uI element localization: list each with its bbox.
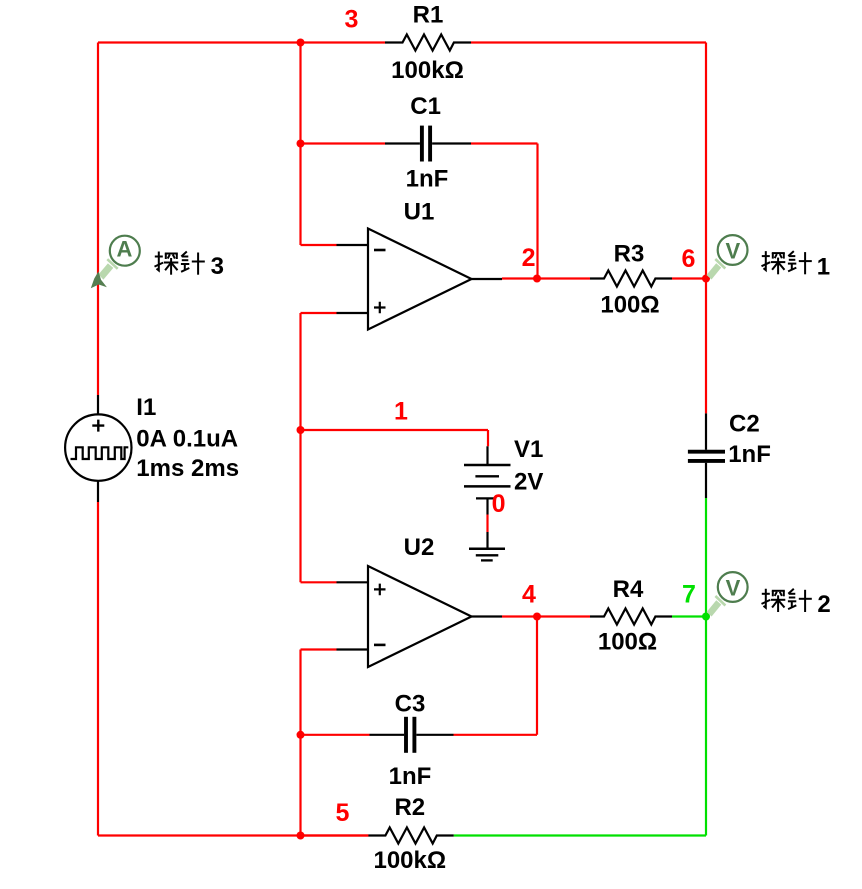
wire U2 non-inverting input [301, 581, 337, 583]
svg-text:2: 2 [522, 244, 536, 272]
resistor R3 [590, 271, 672, 287]
wire bottom green to right bus [454, 834, 706, 836]
wire net 1 horizontal to V1 [301, 429, 489, 431]
svg-text:1: 1 [394, 398, 408, 426]
op-amp U1 [368, 229, 472, 330]
svg-text:R1: R1 [413, 2, 444, 29]
wire U1 inverting input [301, 244, 337, 246]
current source I1 [65, 414, 131, 480]
svg-text:2: 2 [817, 591, 830, 618]
wire node2 to R3 [537, 277, 590, 279]
wire C3 left [301, 734, 370, 736]
wire left bus upper [97, 43, 99, 396]
svg-text:A: A [116, 237, 132, 262]
svg-text:C2: C2 [729, 411, 760, 438]
node junction dot [297, 731, 305, 739]
svg-text:4: 4 [522, 581, 536, 609]
svg-text:C3: C3 [395, 691, 426, 718]
wire U1 non-inverting input [301, 312, 337, 314]
svg-text:3: 3 [211, 253, 224, 280]
wire mid bus middle segment (net 1) [299, 313, 301, 582]
wire U1 output (net 2) [472, 278, 503, 280]
svg-text:0: 0 [492, 490, 506, 518]
svg-text:U1: U1 [404, 199, 435, 226]
wire C1 down to node 2 [536, 144, 538, 279]
op-amp U2 [368, 566, 472, 667]
svg-text:0A 0.1uA: 0A 0.1uA [136, 426, 238, 453]
wire left bus lower [97, 502, 99, 836]
svg-text:7: 7 [682, 581, 696, 609]
wire right bus green (net 7) [705, 498, 707, 836]
probe V (voltage) 探针1 [707, 235, 748, 279]
battery V1 [464, 464, 511, 467]
svg-text:1ms 2ms: 1ms 2ms [136, 455, 239, 482]
svg-text:6: 6 [682, 245, 696, 273]
node 5 junction dot [297, 832, 305, 840]
svg-text:1nF: 1nF [389, 763, 432, 790]
wire node4 to R4 [537, 615, 590, 617]
wire bottom R2 left red [301, 834, 369, 836]
svg-text:I1: I1 [136, 394, 156, 421]
svg-text:100kΩ: 100kΩ [391, 57, 464, 84]
svg-text:5: 5 [336, 799, 350, 827]
svg-text:100Ω: 100Ω [598, 629, 657, 656]
svg-text:R2: R2 [394, 794, 425, 821]
svg-text:R3: R3 [614, 241, 645, 268]
wire C2 top lead [705, 413, 707, 449]
svg-text:1: 1 [817, 253, 830, 280]
node junction dot [297, 140, 305, 148]
probe label 探针1 [762, 251, 831, 280]
svg-text:1nF: 1nF [406, 166, 449, 193]
wire C2 bottom lead [705, 463, 707, 498]
wire R4 to node 7 green [672, 615, 706, 617]
svg-text:100kΩ: 100kΩ [373, 847, 446, 874]
wire right bus red [705, 43, 707, 414]
svg-text:C1: C1 [410, 93, 441, 120]
wire I1 top stub [97, 395, 99, 415]
svg-text:3: 3 [345, 6, 359, 34]
node 1 junction dot [297, 426, 305, 434]
wire C1 left [301, 142, 386, 144]
node 4 junction dot [533, 613, 541, 621]
wire V1 bottom lead (net 0) [486, 498, 488, 514]
wire U2 inverting input [301, 648, 337, 650]
resistor R2 [368, 828, 453, 844]
wire U2 output (net 4) [472, 615, 503, 617]
wire R3 to node 6 [672, 277, 706, 279]
probe label 探针3 [155, 252, 224, 281]
wire top mid to R1 [301, 41, 386, 43]
node junction dot [297, 39, 305, 47]
node 6 junction dot [702, 275, 710, 283]
wire I1 bottom stub [97, 481, 99, 503]
capacitor C3 [404, 717, 408, 753]
wire R1 right to right bus [471, 41, 706, 43]
wire node4 down to C3 [536, 617, 538, 735]
svg-text:V1: V1 [514, 436, 543, 463]
capacitor C2 [688, 450, 725, 454]
svg-text:R4: R4 [613, 576, 644, 603]
wire C1 right [432, 142, 471, 144]
wire V1 top lead [487, 430, 489, 446]
wire bottom left (net 5) [98, 834, 368, 836]
svg-text:U2: U2 [404, 534, 435, 561]
resistor R1 [385, 35, 471, 51]
probe V (voltage) 探针2 [707, 572, 748, 616]
wire mid bus bottom segment [299, 650, 301, 836]
wire mid bus top segment [299, 43, 301, 246]
probe label 探针2 [762, 589, 831, 618]
node 2 junction dot [533, 275, 541, 283]
svg-text:2V: 2V [514, 469, 543, 496]
svg-text:100Ω: 100Ω [600, 292, 659, 319]
ground [469, 548, 505, 551]
svg-text:V: V [726, 575, 741, 600]
capacitor C1 [420, 126, 424, 162]
svg-text:V: V [726, 238, 741, 263]
svg-text:1nF: 1nF [728, 441, 771, 468]
wire top horizontal left (net 3) [98, 41, 301, 43]
probe A (current) 探针3 [91, 236, 140, 289]
resistor R4 [590, 609, 672, 625]
node 7 junction dot green [702, 613, 710, 621]
wire C3 right to corner [454, 734, 538, 736]
